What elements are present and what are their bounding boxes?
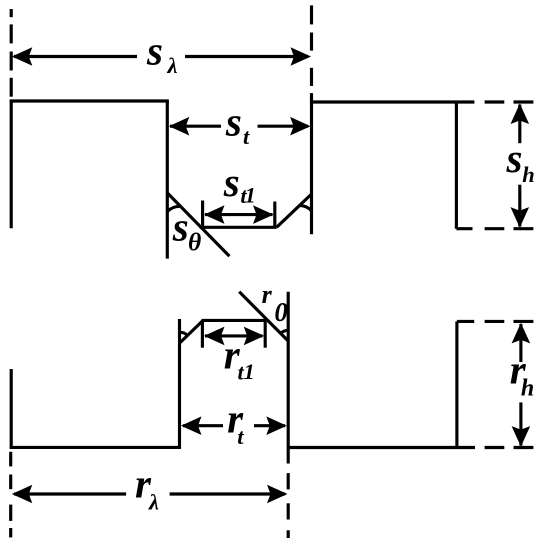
dimension s_lambda right arrowhead [291, 47, 312, 66]
right cut edge wall [455, 102, 458, 229]
svg-text:t: t [243, 124, 250, 149]
dimension s_h bottom arrowhead [511, 207, 530, 228]
floor right dashed continuation [485, 446, 505, 449]
angle arc bottom-left [180, 332, 187, 335]
right bump top (solid part) [457, 320, 474, 323]
svg-text:s: s [146, 28, 163, 74]
dimension s_t1 double arrow [205, 213, 273, 216]
dimension r_t1 tick right [264, 320, 267, 347]
dimension r_lambda arrow line [14, 492, 126, 495]
dimension r_t right arrowhead [266, 416, 287, 435]
dimension r_lambda left arrowhead [12, 485, 33, 504]
svg-text:h: h [522, 162, 535, 187]
dimension r_h arrow line [519, 324, 522, 362]
right partial bump wall [455, 321, 458, 447]
dimension s_t right arrowhead [290, 117, 311, 136]
floor right (bottom fig) [288, 446, 475, 449]
slant line r_0 [239, 292, 288, 342]
svg-text:λ: λ [148, 489, 159, 514]
groove left wall [166, 100, 169, 259]
bump right wall (solid part) [287, 292, 290, 464]
bump top surface [202, 319, 267, 322]
svg-text:1: 1 [244, 359, 255, 384]
dimension s_t left arrowhead [169, 117, 190, 136]
groove right slant wall [277, 194, 312, 227]
floor level dashed (top fig right) [456, 227, 472, 230]
dimension s_t1 tick left [201, 201, 204, 228]
svg-text:λ: λ [167, 53, 178, 78]
dimension r_t left arrowhead [181, 416, 202, 435]
extension line (dashed, right, top fig) [310, 5, 313, 24]
dimension s_lambda left arrowhead [12, 47, 33, 66]
svg-text:1: 1 [245, 183, 256, 208]
dimension r_t1 double arrow [205, 334, 263, 337]
svg-text:s: s [225, 99, 242, 145]
dimension r_t1 tick left [201, 320, 204, 347]
extension line dashed below-left (bottom fig) [9, 452, 12, 467]
svg-text:h: h [521, 375, 534, 401]
bump right wall dashed continuation [287, 473, 290, 489]
svg-text:t: t [237, 424, 244, 449]
dimension r_lambda right arrowhead [267, 485, 288, 504]
svg-text:r: r [262, 280, 273, 309]
right bump top dashed continuation [485, 320, 505, 323]
svg-text:θ: θ [188, 227, 201, 256]
left edge wall (bottom fig) [10, 369, 13, 449]
bump left chamfer slant [180, 320, 203, 342]
right plateau top surface [312, 100, 475, 103]
svg-text:0: 0 [274, 297, 288, 327]
left plateau top surface [10, 99, 169, 102]
svg-text:s: s [223, 159, 240, 205]
left edge wall [10, 100, 13, 229]
right plateau top dashed continuation [485, 100, 505, 103]
dimension s_t arrow line [170, 125, 221, 128]
svg-text:s: s [172, 203, 189, 249]
angle arc bottom-right [280, 330, 288, 333]
dimension r_h top arrowhead [512, 323, 531, 344]
dimension s_h top arrowhead [511, 104, 530, 125]
dimension s_lambda arrow line [14, 55, 137, 58]
dimension r_t arrow line [183, 424, 223, 427]
groove left slant wall [167, 193, 229, 256]
angle arc s_theta [167, 206, 180, 211]
dimension r_h bottom arrowhead [512, 426, 531, 447]
groove right wall [310, 98, 313, 235]
dimension s_h arrow line [518, 105, 521, 144]
groove bottom [200, 226, 277, 229]
angle arc right [300, 205, 312, 211]
dimension s_t1 tick right [273, 202, 276, 228]
svg-text:s: s [506, 135, 523, 181]
extension line (dashed, left, top fig) [10, 9, 13, 17]
bump left wall [178, 319, 181, 449]
floor left (bottom fig) [10, 446, 181, 449]
